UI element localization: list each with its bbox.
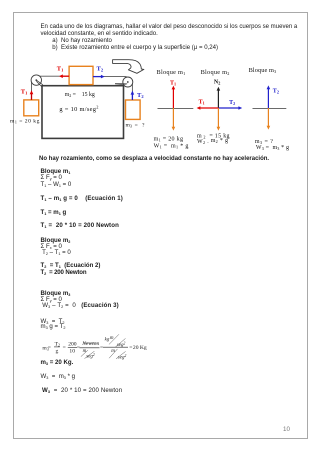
svg-text:T2: T2 <box>137 92 144 99</box>
svg-text:W2 - m2 * g: W2 - m2 * g <box>197 138 228 145</box>
wire rope top-right <box>93 76 127 78</box>
svg-text:20 Kg: 20 Kg <box>133 345 147 351</box>
svg-text:T1: T1 <box>21 88 28 95</box>
block m2 on table <box>69 66 93 84</box>
svg-text:T2: T2 <box>229 100 235 106</box>
svg-text:W1 = m1 * g: W1 = m1 * g <box>154 143 189 149</box>
svg-text:T1: T1 <box>57 66 64 73</box>
FBD3 axis line <box>253 108 287 110</box>
svg-text:10: 10 <box>69 349 75 355</box>
wire rope right vertical <box>131 82 133 100</box>
svg-text:200: 200 <box>68 341 77 347</box>
svg-text:m1 = 20 kg: m1 = 20 kg <box>10 118 40 124</box>
FBD2 tension arrow T1 (red, left) <box>199 107 218 109</box>
tension arrow T2 right rope (blue, up) <box>131 94 133 100</box>
problem statement <box>41 24 298 53</box>
svg-text:m2 = 15 kg: m2 = 15 kg <box>65 92 95 98</box>
formula m3 = T2/g = 200/10 = Newton/(m/seg2) = (kg m/seg2)/(m/seg2) = 20 Kg <box>40 332 152 362</box>
pulley left bracket <box>36 80 43 87</box>
svg-text:g: g <box>56 348 59 354</box>
svg-text:Bloque m3: Bloque m3 <box>249 67 277 74</box>
pulley left <box>31 75 41 85</box>
svg-text:=: = <box>100 344 103 350</box>
svg-text:W3 = m3 * g: W3 = m3 * g <box>256 145 289 151</box>
svg-text:m: m <box>111 349 115 354</box>
FBD1 axis line <box>158 108 194 110</box>
svg-text:Newton: Newton <box>81 341 99 347</box>
FBD3 tension arrow T2 (blue, up) <box>267 88 269 108</box>
pulley right bracket <box>115 83 127 85</box>
FBD2 weight arrow (orange, down) <box>217 108 219 128</box>
tension arrow T1 left rope (red, up) <box>31 94 33 100</box>
svg-text:m1 = 20 kg: m1 = 20 kg <box>154 136 184 142</box>
equations text <box>39 156 269 163</box>
svg-text:T1: T1 <box>199 100 205 106</box>
tension arrow T1 top (red, leftward) <box>62 75 70 77</box>
curved direction arrow <box>113 60 144 74</box>
svg-text:T2: T2 <box>97 66 104 73</box>
svg-text:N2: N2 <box>214 80 220 86</box>
block m1 hanging left <box>24 100 39 116</box>
svg-text:Bloque m1: Bloque m1 <box>157 69 186 76</box>
table <box>42 86 124 139</box>
svg-text:=: = <box>63 345 66 351</box>
diagram + free body diagrams <box>0 0 320 160</box>
svg-text:=: = <box>48 345 51 351</box>
pulley right <box>123 77 133 87</box>
svg-text:seg2: seg2 <box>118 354 127 361</box>
FBD3 weight arrow (orange, down) <box>267 108 269 127</box>
page number <box>283 426 290 433</box>
FBD1 weight arrow (orange, down) <box>172 108 174 128</box>
block m3 hanging right <box>126 100 141 119</box>
wire rope top-left <box>36 75 69 77</box>
svg-text:g = 10 m/seg2: g = 10 m/seg2 <box>59 105 98 113</box>
svg-text:Bloque m2: Bloque m2 <box>201 69 230 76</box>
FBD2 tension arrow T2 (blue, right) <box>218 107 239 109</box>
svg-text:=: = <box>129 345 132 351</box>
wire rope left vertical <box>31 81 33 100</box>
svg-text:m3 = ?: m3 = ? <box>126 123 146 129</box>
tension arrow T2 top (blue, rightward) <box>93 76 102 78</box>
svg-text:T1: T1 <box>170 81 176 87</box>
FBD2 normal arrow N2 (black, up) <box>217 89 219 108</box>
svg-text:T2: T2 <box>273 89 279 95</box>
FBD1 tension arrow T1 (red, up) <box>172 88 174 108</box>
